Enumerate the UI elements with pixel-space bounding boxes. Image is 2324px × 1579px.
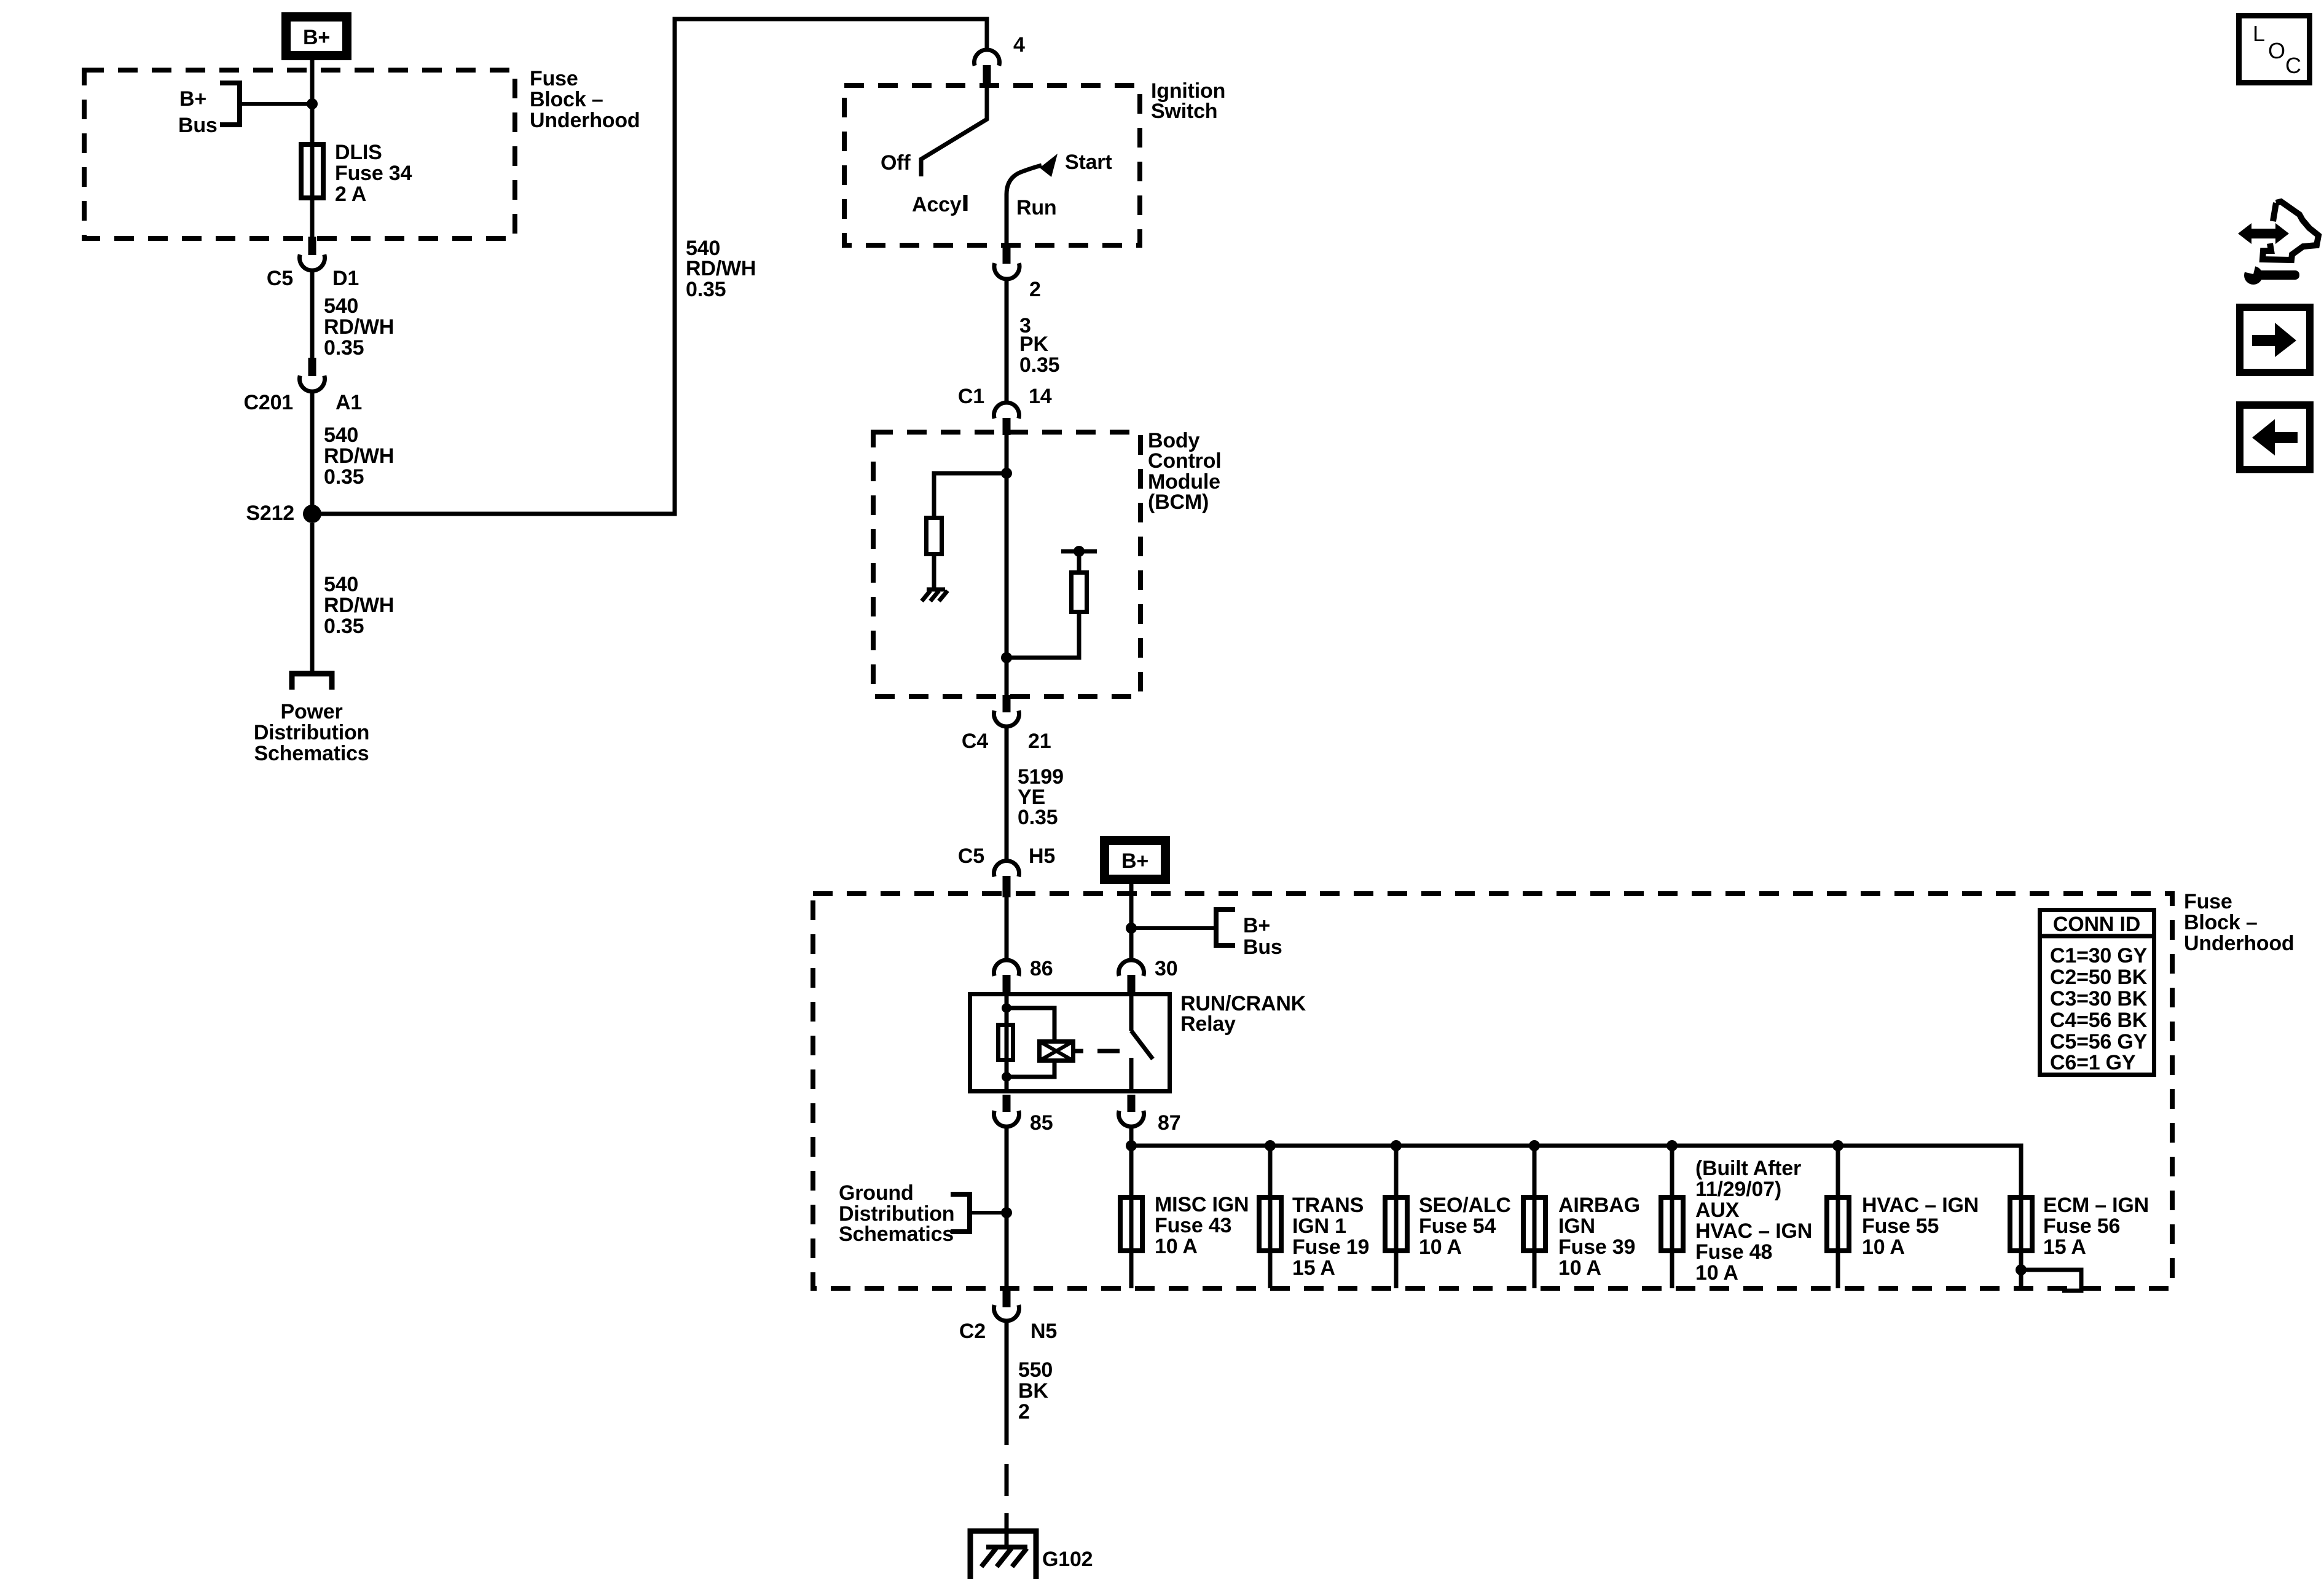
relay RUN/CRANK box [970,994,1170,1092]
label 550 BK 2 [1018,1358,1053,1423]
fuse AIRBAG IGN Fuse 39 [1523,1146,1545,1288]
svg-text:0.35: 0.35 [1018,806,1058,829]
label 540 RD/WH 0.35 (upper) [324,294,394,360]
node bus at fuse 55 [1832,1140,1843,1151]
label AIRBAG IGN Fuse 39 10 A [1558,1194,1640,1280]
fuse MISC IGN Fuse 43 [1120,1195,1142,1288]
svg-text:C1=30 GY: C1=30 GY [2050,944,2148,967]
wire S212 down to power distribution [310,523,315,671]
ground (BCM internal) [922,589,948,601]
svg-text:S212: S212 [246,502,294,525]
node BCM bottom junction [1001,652,1012,663]
label MISC IGN Fuse 43 10 A [1155,1193,1249,1258]
svg-text:C6=1 GY: C6=1 GY [2050,1051,2136,1074]
svg-text:C3=30 BK: C3=30 BK [2050,987,2148,1010]
node bus at fuse 54 [1391,1140,1402,1151]
svg-text:RD/WH: RD/WH [324,315,394,339]
resistor BCM pull-up [1072,573,1087,612]
svg-text:Control: Control [1148,449,1221,473]
label B+ Bus (top left) [178,87,218,137]
wire H5 into relay pin 86 [1005,897,1009,960]
svg-text:PK: PK [1019,333,1048,356]
svg-text:Block –: Block – [2184,911,2258,934]
ignition switch pole wire to Off [921,85,987,176]
svg-text:AIRBAG: AIRBAG [1558,1194,1640,1217]
svg-text:Schematics: Schematics [839,1223,954,1246]
svg-text:(BCM): (BCM) [1148,490,1209,514]
fuse DLIS Fuse 34 [301,142,323,200]
svg-text:Fuse 39: Fuse 39 [1558,1235,1635,1259]
svg-text:0.35: 0.35 [324,336,364,360]
B+ Bus bracket (top left) [220,83,240,125]
wire relay coil loop [1007,1008,1054,1077]
svg-text:HVAC – IGN: HVAC – IGN [1695,1219,1812,1243]
wire C2 to G102, 550 BK 2 [1005,1321,1009,1547]
svg-text:Power: Power [280,700,342,723]
connector C5 pin H5 [994,860,1019,897]
svg-text:TRANS: TRANS [1292,1194,1364,1217]
svg-text:Relay: Relay [1180,1012,1236,1036]
svg-text:87: 87 [1158,1111,1180,1135]
svg-text:10 A: 10 A [1558,1256,1601,1280]
svg-text:Run: Run [1016,196,1057,219]
wire BCM right branch [1007,614,1079,658]
label C2 N5 [959,1320,1057,1343]
wire ground distribution tap [972,1211,1007,1215]
svg-text:15 A: 15 A [2043,1235,2086,1259]
svg-text:Switch: Switch [1151,100,1217,123]
node bus at fuse 39 [1529,1140,1540,1151]
svg-text:HVAC – IGN: HVAC – IGN [1862,1194,1979,1217]
svg-text:C4=56 BK: C4=56 BK [2050,1009,2148,1032]
icon forward arrow box [2240,307,2310,372]
label C5 D1 [267,267,359,290]
svg-text:Distribution: Distribution [254,721,369,744]
label C5 H5 [958,845,1055,868]
wire C201 to S212, 540 RD/WH 0.35 [310,392,315,514]
icon back arrow box [2240,405,2310,470]
svg-text:C4: C4 [962,730,988,753]
svg-text:10 A: 10 A [1695,1261,1738,1285]
svg-text:Fuse 56: Fuse 56 [2043,1215,2120,1238]
relay switch [1131,992,1153,1093]
svg-text:Underhood: Underhood [2184,932,2295,955]
relay solenoid box with X [1039,1041,1074,1061]
svg-text:Underhood: Underhood [530,109,640,132]
svg-text:86: 86 [1030,957,1053,980]
label C4 21 [962,730,1051,753]
node B+ bus tap (fuse block) [1126,923,1137,934]
node ECM fuse output [2016,1264,2027,1275]
wire fuse bus [1131,1146,2021,1195]
fuse SEO/ALC Fuse 54 [1385,1146,1407,1288]
wire ECM fuse output jog [2021,1270,2081,1291]
svg-text:L: L [2253,21,2265,46]
svg-text:550: 550 [1018,1358,1053,1382]
svg-text:C5: C5 [267,267,293,290]
wire B+ Bus tap [240,102,312,106]
label TRANS IGN 1 Fuse 19 15 A [1292,1194,1369,1280]
svg-text:Bus: Bus [178,114,218,137]
svg-text:Schematics: Schematics [254,742,369,765]
svg-text:RD/WH: RD/WH [686,257,756,280]
connector C1 pin 14 [994,403,1019,435]
svg-text:540: 540 [324,294,358,318]
svg-text:O: O [2268,38,2285,63]
svg-text:Off: Off [881,151,911,175]
label 540 RD/WH 0.35 (tall wire) [686,237,756,301]
label RUN/CRANK Relay [1180,992,1306,1036]
svg-text:C: C [2285,53,2301,78]
Ground Distribution bracket [951,1194,970,1232]
wire pin2 to C1, 3 PK 0.35 [1005,279,1009,403]
svg-text:10 A: 10 A [1419,1235,1462,1259]
connector C4 pin 21 [994,695,1019,726]
svg-text:Fuse: Fuse [530,67,578,90]
label 3 PK 0.35 [1019,314,1059,377]
svg-text:540: 540 [324,423,358,447]
arrowhead to Start [1040,154,1058,177]
svg-text:C2=50 BK: C2=50 BK [2050,966,2148,989]
wire resistor to internal ground [932,556,936,588]
svg-text:B+: B+ [1121,849,1148,873]
node relay coil bottom [1002,1072,1011,1082]
connector C2 pin N5 [994,1288,1019,1321]
node BCM top junction [1001,468,1012,479]
label (Built After 11/29/07) AUX HVAC-IGN Fuse 48 10 A [1695,1157,1812,1285]
svg-text:CONN ID: CONN ID [2053,913,2140,936]
svg-text:B+: B+ [303,26,330,49]
svg-text:2: 2 [1018,1400,1030,1423]
svg-text:RD/WH: RD/WH [324,444,394,468]
svg-text:H5: H5 [1029,845,1055,868]
relay actuator dashed link [1075,1049,1120,1053]
label C1 14 [958,385,1052,408]
svg-text:540: 540 [324,573,358,596]
svg-text:0.35: 0.35 [1019,353,1059,377]
svg-text:2 A: 2 A [335,183,366,206]
svg-text:AUX: AUX [1695,1199,1740,1222]
B+ Bus bracket (fuse block) [1216,910,1235,945]
svg-text:RD/WH: RD/WH [324,594,394,617]
wire fuse 34 to connector C5 [310,200,315,240]
svg-text:Fuse 43: Fuse 43 [1155,1214,1231,1237]
splice S212 [303,505,321,523]
svg-text:Fuse 54: Fuse 54 [1419,1215,1496,1238]
LOC legend box [2239,16,2310,83]
wire BCM main vertical [1005,433,1009,696]
ground G102 [970,1531,1036,1579]
svg-text:(Built After: (Built After [1695,1157,1801,1180]
label C201 A1 [244,391,363,414]
svg-text:N5: N5 [1030,1320,1057,1343]
CONN ID table [2038,910,2156,1075]
label 540 RD/WH 0.35 (below S212) [324,573,394,638]
ignition Run contact wire with Start arrow [1007,165,1042,246]
connector relay pin 30 [1119,960,1144,992]
wire C5 to C201, 540 RD/WH 0.35 [310,270,315,360]
svg-text:11/29/07): 11/29/07) [1695,1178,1781,1201]
ignition switch box (dashed) [844,85,1140,245]
svg-text:C1: C1 [958,385,984,408]
node bus at fuse 19 [1265,1140,1276,1151]
svg-text:Block –: Block – [530,88,603,111]
label HVAC - IGN Fuse 55 10 A [1862,1194,1979,1259]
svg-text:A1: A1 [336,391,362,414]
label Ground Distribution Schematics [839,1181,954,1246]
label Fuse Block - Underhood (top) [530,67,640,132]
svg-text:G102: G102 [1042,1548,1093,1571]
svg-text:0.35: 0.35 [324,465,364,489]
svg-text:C5: C5 [958,845,984,868]
wire C4 to C5, 5199 YE 0.35 [1005,726,1009,861]
fuse block underhood box (top left, dashed) [84,70,515,238]
wire B+ down to relay pin 30 [1129,884,1134,960]
resistor relay coil [999,1025,1013,1060]
wire S212 to ignition switch (long run up and over) [312,19,987,514]
connector relay pin 87 [1119,1095,1144,1127]
off-page symbol Power Distribution [292,674,332,690]
wire BCM left branch [934,473,1007,516]
node relay coil top [1002,1003,1011,1013]
connector C5 pin D1 [300,237,325,270]
svg-text:DLIS: DLIS [335,141,382,164]
svg-text:21: 21 [1028,730,1051,753]
wire B+ to fuse 34 [310,60,315,142]
node bus at fuse 43 [1126,1140,1137,1151]
svg-text:15 A: 15 A [1292,1256,1335,1280]
svg-text:Start: Start [1065,151,1112,174]
svg-text:Fuse 34: Fuse 34 [335,162,412,185]
body control module box (dashed) [873,432,1140,696]
fuse HVAC-IGN Fuse 55 [1827,1146,1849,1288]
svg-text:Accy: Accy [912,193,962,216]
label 5199 YE 0.35 [1018,765,1064,829]
label Body Control Module (BCM) [1148,429,1221,514]
svg-text:IGN 1: IGN 1 [1292,1215,1346,1238]
label SEO/ALC Fuse 54 10 A [1419,1194,1511,1259]
svg-text:0.35: 0.35 [324,615,364,638]
svg-text:MISC IGN: MISC IGN [1155,1193,1249,1216]
svg-text:0.35: 0.35 [686,278,726,301]
svg-text:10 A: 10 A [1155,1235,1198,1258]
power symbol B+ (top left) [286,17,347,56]
fuse ECM-IGN Fuse 56 [2010,1195,2032,1288]
svg-text:14: 14 [1029,385,1052,408]
wire to B+ Bus bracket [1131,926,1216,930]
resistor BCM pull-down [927,518,942,554]
contact tick Accy [964,195,968,211]
wire resistor to internal supply [1077,553,1082,570]
node bus at fuse 48 [1666,1140,1678,1151]
label Power Distribution Schematics [254,700,369,765]
svg-text:4: 4 [1013,33,1025,57]
svg-text:2: 2 [1029,278,1041,301]
svg-text:Fuse: Fuse [2184,890,2232,913]
label Fuse Block - Underhood (bottom right) [2184,890,2295,955]
svg-text:C201: C201 [244,391,293,414]
node B+ Bus tap [307,98,318,109]
fuse block underhood box (bottom, dashed) [813,894,2172,1288]
icon electrical repair (double arrow, car outline, wrench) [2238,202,2318,285]
connector relay pin 85 [994,1095,1019,1127]
svg-text:Ground: Ground [839,1181,914,1205]
connector relay pin 86 [994,960,1019,992]
power symbol B+ (fuse block) [1105,841,1166,880]
internal supply bar with node [1061,546,1097,557]
relay coil branch wire [1005,992,1009,1093]
fuse TRANS IGN 1 Fuse 19 [1259,1146,1281,1288]
fuse AUX HVAC-IGN Fuse 48 [1661,1146,1683,1288]
svg-text:Fuse 55: Fuse 55 [1862,1215,1939,1238]
wire pin 85 down to C2 [1005,1127,1009,1290]
label Ignition Switch [1151,79,1225,123]
svg-text:B+: B+ [1243,914,1270,937]
svg-text:B+: B+ [179,87,206,111]
label DLIS Fuse 34 2A [335,141,412,206]
label 540 RD/WH 0.35 (mid) [324,423,394,489]
svg-text:Fuse 48: Fuse 48 [1695,1240,1772,1264]
svg-text:C5=56 GY: C5=56 GY [2050,1030,2148,1053]
svg-text:10 A: 10 A [1862,1235,1905,1259]
svg-text:BK: BK [1018,1379,1048,1403]
connector pin 2 [994,245,1019,279]
svg-text:ECM – IGN: ECM – IGN [2043,1194,2149,1217]
connector C201 pin A1 [300,358,325,392]
label B+ Bus (fuse block) [1243,914,1282,959]
svg-text:85: 85 [1030,1111,1053,1135]
svg-text:30: 30 [1155,957,1177,980]
svg-text:IGN: IGN [1558,1215,1595,1238]
svg-text:C2: C2 [959,1320,986,1343]
wire pin 87 to fuse bus [1129,1127,1134,1195]
svg-text:Bus: Bus [1243,935,1282,959]
connector pin 4 (ignition switch) [975,50,1000,86]
svg-text:D1: D1 [332,267,359,290]
svg-text:SEO/ALC: SEO/ALC [1419,1194,1511,1217]
svg-text:Fuse 19: Fuse 19 [1292,1235,1369,1259]
label ECM - IGN Fuse 56 15 A [2043,1194,2149,1259]
node ground distribution tap [1001,1207,1012,1218]
